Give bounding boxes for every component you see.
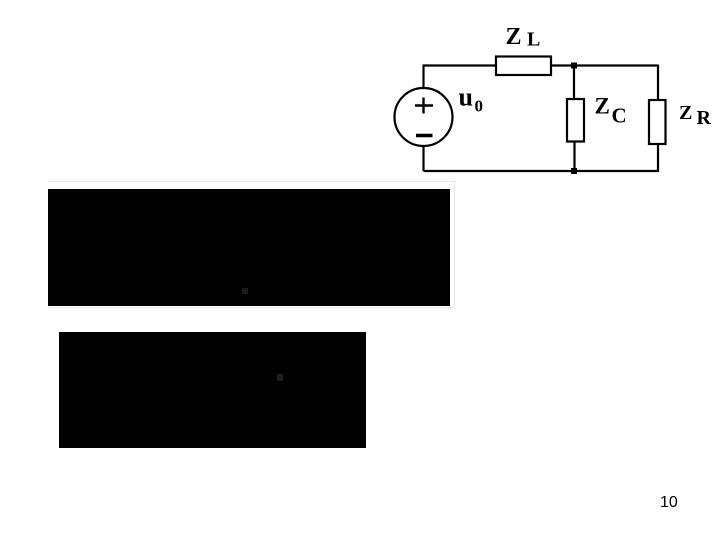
node junction top xyxy=(571,63,577,69)
wire from ZR down to bottom rail xyxy=(657,145,659,172)
wire from top rail down to ZR xyxy=(657,65,659,100)
svg-text:C: C xyxy=(612,103,627,127)
label ZL xyxy=(506,24,541,51)
voltage source U0 xyxy=(395,88,453,146)
resistor ZL xyxy=(496,57,551,76)
faint mark inside block 2 xyxy=(277,374,283,381)
label ZC xyxy=(595,94,627,128)
svg-text:L: L xyxy=(527,29,540,51)
wire from source bottom to bottom rail xyxy=(422,146,424,171)
wire top rail right segment xyxy=(551,64,658,66)
node junction bottom xyxy=(571,168,577,174)
wire bottom rail xyxy=(424,170,659,172)
faint mark inside block 1 xyxy=(242,288,248,294)
impedance ZC xyxy=(567,99,584,142)
wire top rail left segment xyxy=(423,64,497,66)
svg-text:Z: Z xyxy=(595,94,610,119)
page number 10 xyxy=(660,494,678,512)
label u0 xyxy=(459,83,484,116)
wire from ZC down to bottom rail xyxy=(573,143,575,172)
svg-text:Z: Z xyxy=(506,24,522,50)
svg-text:0: 0 xyxy=(475,97,484,116)
svg-text:u: u xyxy=(459,83,473,112)
impedance ZR xyxy=(649,100,666,144)
formula block 1 (solid black) xyxy=(48,189,450,306)
wire from top node down to ZC xyxy=(573,66,575,99)
wire from source top to top rail xyxy=(422,66,424,89)
label ZR xyxy=(679,102,712,129)
svg-text:Z: Z xyxy=(679,102,692,124)
faint frame around formula block 1 xyxy=(48,181,455,308)
formula block 2 (solid black) xyxy=(59,332,366,448)
svg-text:R: R xyxy=(697,107,712,129)
